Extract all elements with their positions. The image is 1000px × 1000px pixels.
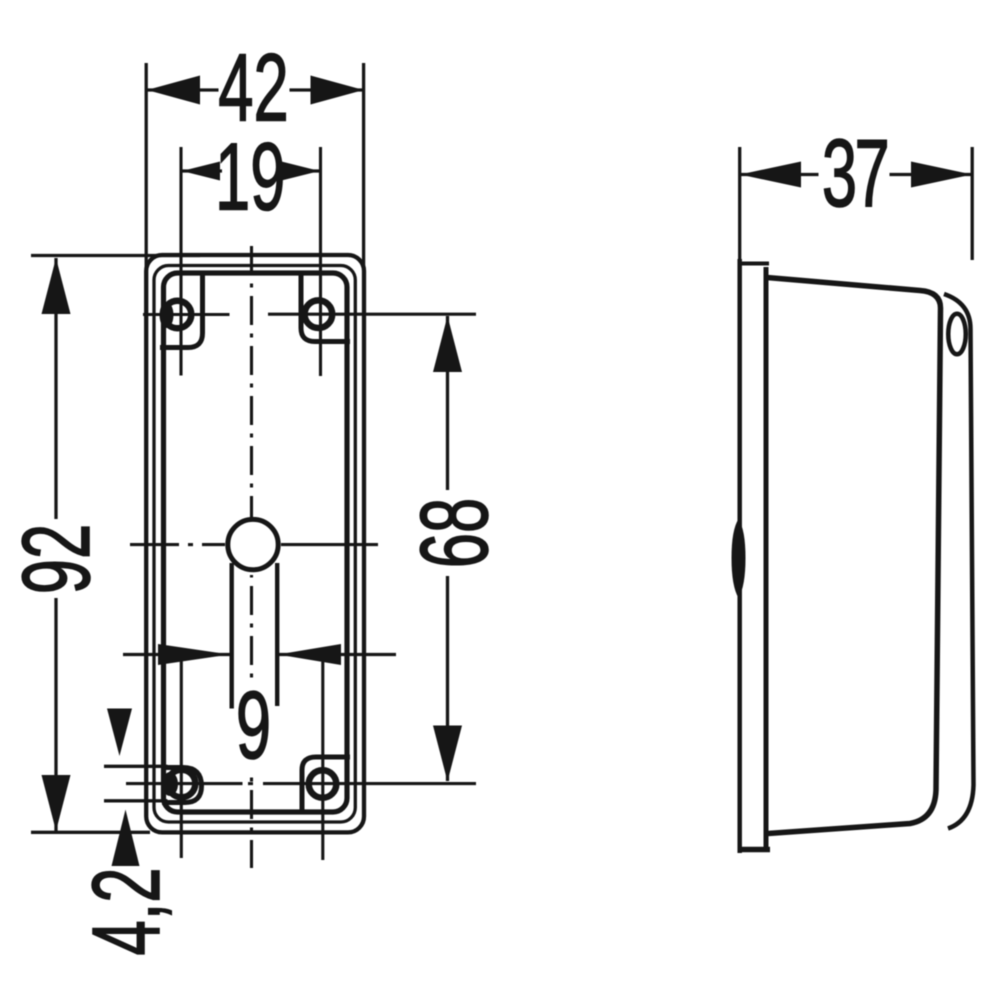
dimension 92 extension top	[31, 254, 200, 257]
side view bracket right edge	[764, 267, 769, 849]
dark merge blob top-left hole	[160, 302, 174, 328]
plate outer outline	[146, 255, 364, 832]
svg-text:92: 92	[3, 524, 110, 594]
slot left edge	[229, 563, 233, 709]
centerline vertical top-left hole / ext 19 left	[179, 147, 182, 376]
dimension 37 arrow right	[911, 162, 972, 188]
svg-text:68: 68	[401, 498, 508, 568]
side view body top edge	[767, 278, 941, 834]
dimension 92 line	[54, 258, 57, 519]
dimension 92 arrow bottom	[42, 775, 71, 831]
extension line 68 bottom / cross bottom holes	[126, 782, 243, 785]
dimension 37 extension right	[971, 147, 974, 260]
centerline vertical top-right hole / ext 19 right	[319, 147, 322, 376]
dimension 37 line	[740, 173, 819, 176]
dimension 4,2 arrow down	[107, 709, 132, 757]
dimension 19 arrow left	[182, 162, 220, 181]
dimension 42 arrow right	[311, 76, 364, 105]
housing outline	[164, 273, 348, 812]
screw hole top-right	[305, 300, 333, 328]
horizontal centerline of center hole	[130, 543, 179, 546]
dimension 19 arrow right	[282, 162, 320, 181]
dimension 92 extension bottom	[31, 831, 150, 834]
dimension 9 line	[123, 653, 230, 656]
boss bottom-left	[162, 768, 202, 803]
dimension 4,2 arrow up	[112, 810, 140, 867]
centerline vertical bottom-left hole	[180, 658, 183, 858]
side view bracket bottom edge	[738, 847, 771, 853]
center hole	[228, 519, 278, 569]
centerline vertical bottom-right hole	[321, 655, 324, 860]
vertical dash-dot centerline upper run	[250, 246, 253, 518]
extension line 68 top / cross top-right hole	[268, 313, 476, 316]
side view bracket left edge	[737, 259, 742, 853]
dimension 4,2 tangent line bottom	[104, 799, 168, 802]
svg-text:9: 9	[236, 672, 271, 779]
dimension 19 line	[182, 169, 222, 172]
side view grommet blob	[732, 519, 746, 598]
svg-text:4,2: 4,2	[73, 867, 180, 955]
dimension 37 extension left	[738, 147, 741, 262]
dimension 9 arrow right	[278, 644, 341, 665]
vertical dash-dot centerline mid run	[250, 575, 253, 680]
screw hole bottom-right	[309, 770, 337, 798]
vertical dash-dot centerline lower run	[250, 770, 253, 868]
screw hole bottom-left	[168, 770, 196, 798]
boss top-right	[301, 272, 350, 342]
plate inner outline	[154, 266, 355, 823]
screw hole top-left	[164, 301, 192, 329]
dimension 42 arrow left	[147, 76, 200, 105]
slot right edge	[275, 563, 279, 706]
svg-text:19: 19	[215, 123, 285, 230]
boss bottom-right	[302, 757, 350, 813]
dimension 42 line	[147, 88, 219, 91]
dark merge blob bottom-left hole	[162, 772, 178, 796]
centerline cross top-left hole	[143, 313, 230, 316]
dimension 68 line	[446, 316, 449, 490]
dimension 9 arrow left	[158, 644, 230, 665]
dimension 42 extension right	[362, 63, 365, 270]
dimension 42 extension left	[145, 63, 148, 270]
dimension 68 arrow bottom	[433, 726, 462, 782]
svg-text:37: 37	[822, 120, 887, 227]
side view lens outer edge	[944, 294, 974, 829]
side view screw hole oval	[948, 314, 966, 355]
dimension 37 arrow left	[740, 162, 801, 188]
dimension 68 arrow top	[433, 316, 462, 372]
boss top-left	[160, 272, 203, 348]
dimension 4,2 tangent line top	[104, 765, 168, 768]
dimension 92 arrow top	[42, 258, 71, 314]
side view bracket top edge	[738, 262, 770, 266]
